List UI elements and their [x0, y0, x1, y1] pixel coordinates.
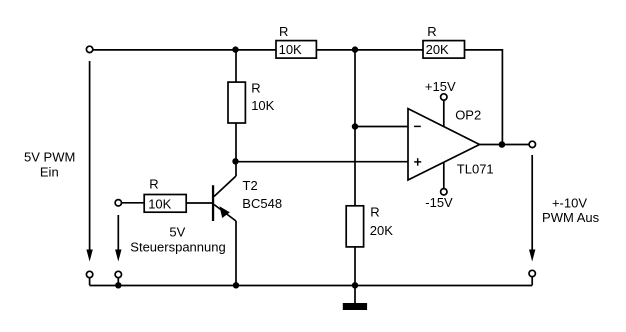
wire emitter vertical to bus	[235, 221, 237, 285]
svg-text:PWM Aus: PWM Aus	[542, 210, 600, 225]
junction dot output node	[499, 141, 506, 148]
wire R1 to R2	[316, 49, 423, 51]
wire -15V stub	[443, 162, 445, 189]
resistor R1 10K horizontal top	[276, 24, 316, 58]
arrow input down	[86, 250, 92, 262]
resistor R5 10K base	[144, 177, 186, 213]
node A junction dot	[232, 46, 238, 52]
ground	[343, 303, 367, 310]
svg-text:5V: 5V	[169, 224, 185, 239]
svg-text:R: R	[279, 24, 288, 39]
terminal output	[529, 141, 535, 147]
wire vertical from node A down to R3	[235, 49, 237, 83]
terminal bottom left 2	[115, 271, 121, 277]
svg-text:10K: 10K	[251, 98, 274, 113]
junction dot bus emitter	[233, 282, 239, 288]
wire below output terminal to bus	[531, 277, 533, 286]
junction dot bus ground	[352, 282, 358, 288]
svg-text:-15V: -15V	[425, 195, 453, 210]
wire +15V stub	[443, 100, 445, 126]
svg-text:Ein: Ein	[40, 165, 59, 180]
wire non-inverting input	[236, 161, 409, 163]
arrow output down	[529, 250, 535, 262]
wire R3 bottom to node C	[235, 123, 237, 161]
svg-text:20K: 20K	[370, 223, 393, 238]
resistor R4 20K to ground	[346, 205, 393, 247]
terminal +15V	[441, 94, 447, 100]
svg-text:+-10V: +-10V	[552, 196, 587, 211]
svg-text:20K: 20K	[426, 42, 449, 57]
transistor T2 BC548	[212, 178, 282, 221]
resistor R3 10K vertical	[228, 81, 275, 124]
svg-text:R: R	[370, 205, 379, 220]
svg-text:R: R	[251, 81, 260, 96]
wire op-amp output	[480, 144, 530, 146]
svg-text:Steuerspannung: Steuerspannung	[130, 240, 225, 255]
wire R5 terminal to R5	[122, 202, 145, 204]
non-inverting input pin mark +	[414, 161, 421, 163]
node B junction dot	[352, 46, 358, 52]
wire R4 bottom to ground bus	[354, 247, 356, 285]
svg-text:10K: 10K	[279, 42, 302, 57]
svg-text:R: R	[149, 177, 158, 192]
wire base from R5 to T2	[186, 202, 212, 204]
wire collector vertical	[235, 161, 237, 176]
resistor R2 20K feedback	[423, 24, 465, 58]
wire feedback vertical down to output node	[501, 49, 503, 145]
terminal input 5V PWM	[86, 46, 92, 52]
wire vertical node B down to R4 top	[354, 49, 356, 206]
wire below input arrow terminal to bus	[89, 278, 91, 286]
wire ground bus	[90, 285, 533, 287]
svg-text:TL071: TL071	[457, 161, 494, 176]
wire steuer vertical	[117, 215, 119, 252]
arrow steuer down	[115, 250, 121, 262]
svg-text:OP2: OP2	[455, 108, 481, 123]
junction dot inverting input	[352, 123, 358, 129]
emitter arrow of T2	[220, 206, 230, 218]
wire top from input terminal to R1	[93, 49, 276, 51]
terminal bottom right	[529, 270, 535, 276]
wire below steuer terminal to bus	[117, 278, 119, 286]
wire ground stub	[354, 285, 356, 303]
terminal -15V	[441, 189, 447, 195]
wire input vertical (5V PWM Ein)	[89, 61, 91, 252]
inverting input pin mark -	[414, 125, 421, 127]
svg-text:T2: T2	[243, 178, 258, 193]
terminal bottom left 1	[86, 271, 92, 277]
wire emitter slant	[214, 205, 236, 222]
wire collector slant	[214, 176, 236, 197]
node C junction dot collector	[232, 158, 238, 164]
svg-text:5V PWM: 5V PWM	[24, 150, 75, 165]
wire R2 to feedback corner	[465, 49, 503, 51]
junction dot bus steuer	[115, 282, 121, 288]
svg-text:+15V: +15V	[425, 79, 456, 94]
svg-text:R: R	[427, 24, 436, 39]
svg-text:BC548: BC548	[242, 196, 282, 211]
terminal steuerspannung input	[115, 200, 121, 206]
wire output vertical down	[531, 155, 533, 252]
svg-text:10K: 10K	[148, 196, 171, 211]
op-amp U1 OP2 TL071	[408, 108, 494, 181]
wire inverting input	[355, 126, 408, 128]
